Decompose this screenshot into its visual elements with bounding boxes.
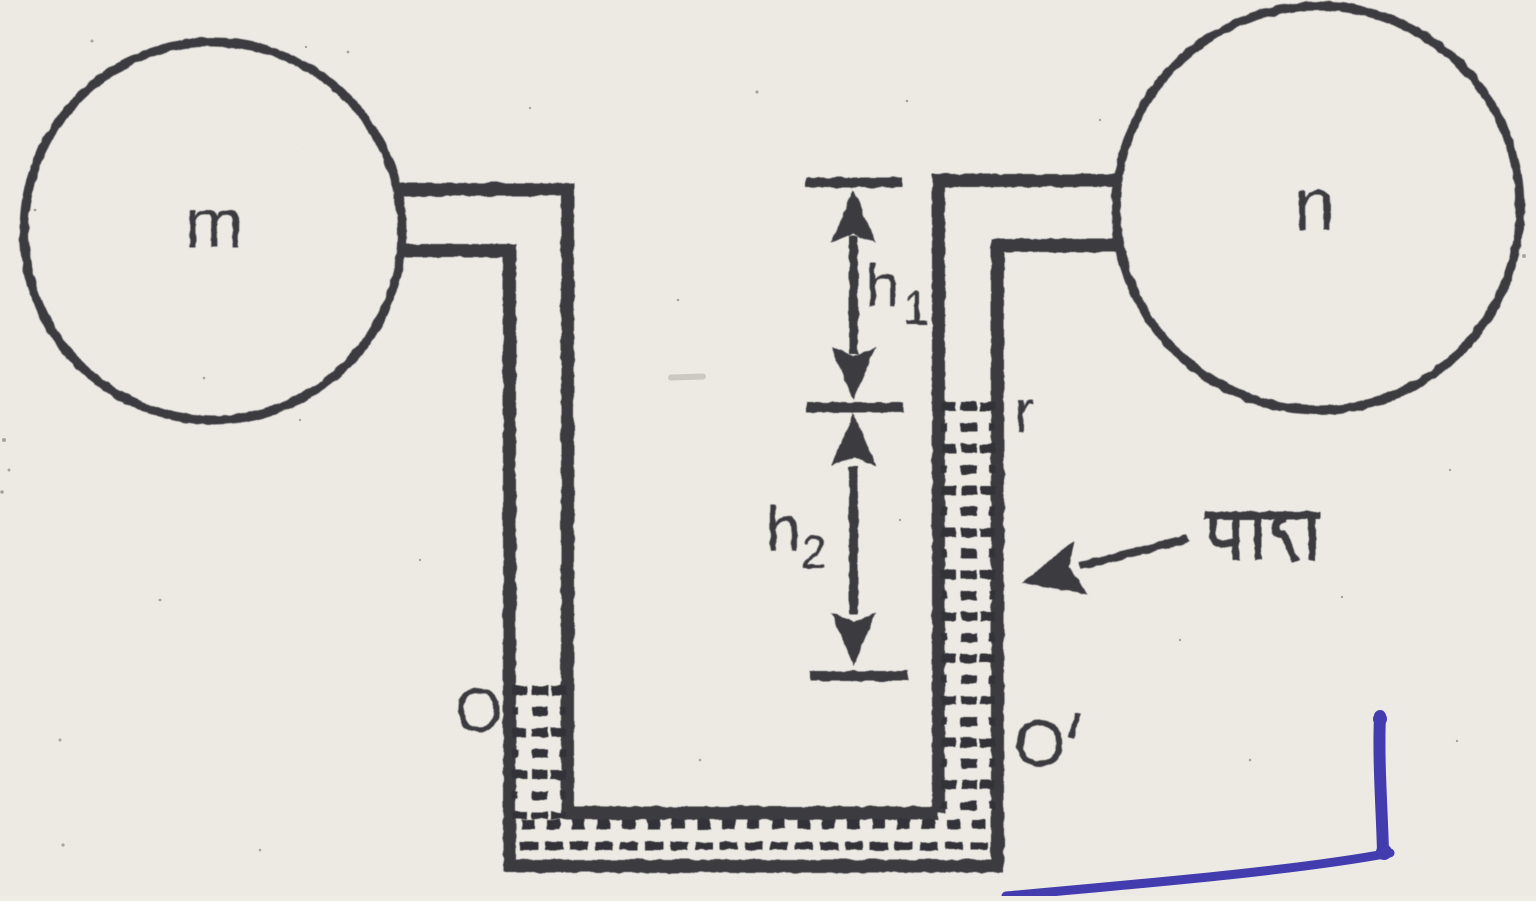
svg-text:O: O (455, 676, 502, 744)
svg-text:2: 2 (801, 526, 827, 578)
svg-text:n: n (1294, 163, 1335, 246)
svg-text:m: m (185, 184, 243, 262)
svg-text:1: 1 (903, 281, 929, 334)
svg-text:r: r (1014, 378, 1034, 445)
svg-text:h: h (766, 495, 801, 565)
svg-text:O: O (1014, 706, 1065, 780)
svg-text:h: h (866, 252, 899, 319)
